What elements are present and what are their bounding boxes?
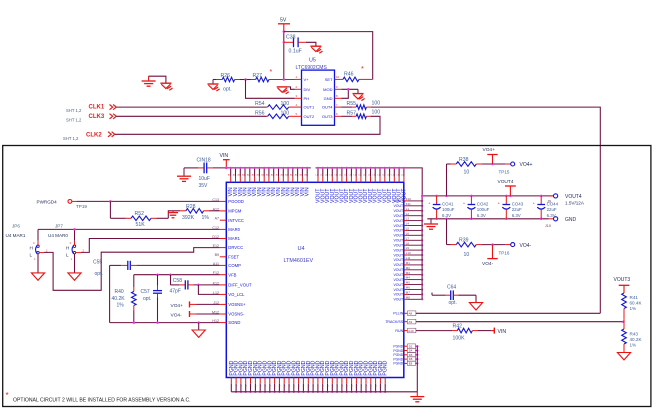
- capacitor CO44 22uF: [533, 196, 559, 219]
- svg-text:M4: M4: [406, 276, 410, 280]
- wire net TRACK/SS: [416, 321, 624, 323]
- svg-text:MPGM: MPGM: [228, 209, 242, 214]
- sheet border: [3, 146, 651, 407]
- ground G13 (open triangle JP6): [31, 273, 44, 280]
- svg-text:VOUT: VOUT: [393, 268, 404, 272]
- ground G15 (open triangle at SGND): [192, 323, 205, 338]
- resistor R39 10: [447, 219, 506, 258]
- svg-text:TP15: TP15: [499, 169, 510, 174]
- testpoint TP15: [499, 162, 533, 174]
- svg-text:VO4+: VO4+: [171, 303, 184, 309]
- svg-text:VOUT: VOUT: [393, 253, 404, 257]
- U5 pin 7 OUT4: [322, 103, 342, 110]
- node CLK1: [66, 105, 116, 114]
- svg-text:6.3V: 6.3V: [547, 213, 556, 218]
- svg-text:VOUT: VOUT: [393, 209, 404, 213]
- svg-text:PGND: PGND: [383, 360, 389, 375]
- wire net VOUT bus (top right bank): [316, 168, 423, 196]
- wire net DRVCC from JP6-2 (U route): [44, 248, 220, 291]
- svg-text:C38: C38: [286, 35, 296, 41]
- svg-text:VOUT: VOUT: [393, 298, 404, 302]
- resistor R27: [246, 69, 295, 82]
- capacitor C57 opt.: [141, 275, 163, 323]
- capacitor CO41 100uF: [428, 196, 455, 219]
- svg-text:VOUT: VOUT: [393, 239, 404, 243]
- wire MOD/GND tie: [342, 88, 359, 98]
- svg-text:60.4K: 60.4K: [630, 300, 643, 305]
- svg-text:10: 10: [464, 170, 470, 176]
- wire right PGND vertical: [416, 346, 418, 392]
- svg-text:M3: M3: [406, 271, 410, 275]
- svg-text:TP16: TP16: [499, 250, 510, 255]
- capacitor CO42 100uF: [463, 196, 490, 219]
- resistor R54 100: [255, 101, 295, 109]
- svg-text:VOUT: VOUT: [393, 273, 404, 277]
- svg-text:RUN: RUN: [395, 329, 403, 333]
- resistor R56 100: [255, 110, 295, 118]
- svg-text:L10: L10: [406, 251, 411, 255]
- U5 pin 6 OUT3: [322, 112, 342, 119]
- svg-text:35V: 35V: [199, 183, 209, 189]
- svg-text:VOUT: VOUT: [393, 244, 404, 248]
- svg-text:6.3V: 6.3V: [512, 213, 521, 218]
- svg-text:VOUT3: VOUT3: [614, 277, 631, 283]
- svg-text:OPTIONAL CIRCUIT 2 WILL BE INS: OPTIONAL CIRCUIT 2 WILL BE INSTALLED FOR…: [13, 397, 191, 403]
- svg-text:R55: R55: [347, 101, 357, 107]
- svg-text:L4: L4: [406, 222, 410, 226]
- svg-text:CLK3: CLK3: [89, 114, 105, 120]
- resistor R26 opt.: [213, 73, 246, 93]
- node V+ junctions: [244, 78, 285, 81]
- svg-text:10: 10: [336, 75, 340, 79]
- svg-text:100: 100: [372, 101, 381, 107]
- wire net PLLIN: [416, 312, 600, 314]
- svg-text:22uF: 22uF: [547, 207, 557, 212]
- U5 pin 1 V+: [295, 75, 310, 82]
- svg-text:A8: A8: [409, 312, 413, 316]
- svg-text:L1: L1: [406, 207, 410, 211]
- svg-text:6.3V: 6.3V: [477, 213, 486, 218]
- svg-text:LTC6902CMS: LTC6902CMS: [296, 65, 328, 71]
- svg-text:10: 10: [464, 252, 470, 258]
- power flag 5V: [278, 18, 290, 32]
- svg-text:TRACK/SS: TRACK/SS: [385, 320, 404, 324]
- resistor R41 60.4K 1%: [622, 293, 643, 320]
- svg-text:DIV: DIV: [304, 87, 311, 92]
- svg-text:*: *: [6, 391, 9, 400]
- svg-text:VOUT: VOUT: [393, 283, 404, 287]
- svg-text:VOUT: VOUT: [393, 214, 404, 218]
- svg-text:CO41: CO41: [442, 201, 454, 206]
- node VO4+ sense: [171, 301, 220, 308]
- node CLK2: [63, 132, 115, 141]
- svg-text:CO44: CO44: [547, 201, 559, 206]
- svg-text:L3: L3: [406, 217, 410, 221]
- svg-text:100: 100: [281, 101, 290, 107]
- U4 pin PLLIN: [393, 311, 416, 316]
- ground G9 (bar, at output caps): [424, 219, 438, 229]
- svg-text:VOUT: VOUT: [393, 199, 404, 203]
- svg-text:SET: SET: [325, 77, 333, 82]
- wire net CLK2 to R57: [115, 116, 380, 134]
- ground G3 (chevron, right of C38): [310, 46, 322, 53]
- svg-text:M7: M7: [406, 291, 410, 295]
- svg-text:VOUT4: VOUT4: [498, 179, 514, 185]
- svg-text:SHT 1,2: SHT 1,2: [66, 118, 82, 123]
- svg-text:C55: C55: [93, 260, 102, 266]
- svg-text:CO43: CO43: [512, 201, 524, 206]
- svg-text:OUT3: OUT3: [322, 114, 333, 119]
- svg-text:VOUT: VOUT: [393, 229, 404, 233]
- svg-text:VIN: VIN: [305, 187, 311, 196]
- svg-text:C57: C57: [141, 289, 150, 295]
- svg-text:M2: M2: [406, 266, 410, 270]
- U5 pin 3 PH: [295, 94, 310, 101]
- svg-text:1%: 1%: [630, 306, 637, 311]
- svg-text:100uF: 100uF: [477, 207, 490, 212]
- capacitor C58 47pF: [170, 275, 194, 295]
- ground G10 (open triangle at C64): [469, 303, 482, 310]
- resistor R38 10: [447, 157, 506, 196]
- U4 pin TRACK/SS: [385, 319, 416, 324]
- node CLK3: [66, 114, 116, 123]
- svg-text:DRVCC: DRVCC: [228, 245, 243, 250]
- svg-text:PGND: PGND: [393, 362, 403, 366]
- svg-text:A10: A10: [408, 329, 414, 333]
- svg-text:VOUT: VOUT: [393, 263, 404, 267]
- wire net VFB: [134, 273, 220, 276]
- wire net PGOOD: [77, 200, 220, 203]
- svg-text:1%: 1%: [117, 302, 125, 308]
- svg-text:R27: R27: [253, 73, 263, 79]
- U5 pin 8 GND: [324, 94, 342, 101]
- svg-text:100uF: 100uF: [442, 207, 455, 212]
- svg-text:VO_LCL: VO_LCL: [228, 292, 245, 297]
- svg-text:R42: R42: [453, 324, 463, 330]
- wire net PGND bottom bus: [231, 391, 417, 393]
- svg-text:VOUT: VOUT: [393, 234, 404, 238]
- resistor R46: [342, 66, 373, 82]
- ground G2 (chevron style, top-left): [160, 83, 172, 90]
- svg-text:100: 100: [281, 110, 290, 116]
- U5 pin 4 OUT1: [295, 103, 315, 110]
- svg-text:VO4-: VO4-: [520, 243, 532, 249]
- U4 bottom PGND pin stubs: [229, 360, 389, 393]
- svg-text:VOUT: VOUT: [393, 293, 404, 297]
- note text: [6, 391, 191, 403]
- wire net VOUT4 top rail: [421, 195, 554, 198]
- capacitor C55 opt.: [93, 260, 220, 278]
- svg-text:L6: L6: [406, 231, 410, 235]
- svg-text:INTVCC: INTVCC: [228, 218, 244, 223]
- svg-text:CIN18: CIN18: [197, 158, 211, 164]
- wire net MAR1 from JP7-2: [81, 239, 220, 253]
- svg-text:R26: R26: [221, 73, 231, 79]
- svg-text:VIN: VIN: [498, 329, 507, 335]
- svg-text:K10: K10: [406, 197, 412, 201]
- svg-text:1%: 1%: [630, 343, 637, 348]
- svg-text:R43: R43: [630, 331, 639, 336]
- svg-text:22uF: 22uF: [512, 207, 522, 212]
- node PWRGD4 / testpoint TP19: [37, 200, 88, 210]
- svg-text:U4: U4: [298, 246, 305, 252]
- svg-text:VOSNS+: VOSNS+: [228, 302, 246, 307]
- svg-text:PWRGD4: PWRGD4: [37, 200, 58, 205]
- svg-text:V+: V+: [304, 77, 310, 82]
- svg-text:51K: 51K: [136, 222, 146, 228]
- capacitor CO43 22uF: [498, 196, 524, 219]
- svg-text:CO42: CO42: [477, 201, 489, 206]
- svg-text:VIN: VIN: [220, 153, 229, 159]
- svg-text:R41: R41: [630, 295, 639, 300]
- svg-text:VOUT: VOUT: [393, 219, 404, 223]
- ground G12 (bar, small at R28): [168, 211, 178, 218]
- svg-text:CLK1: CLK1: [89, 105, 105, 111]
- svg-text:R52: R52: [135, 211, 145, 217]
- svg-text:47pF: 47pF: [170, 288, 181, 294]
- svg-text:MOD: MOD: [323, 87, 332, 92]
- svg-text:VO4+: VO4+: [483, 147, 496, 153]
- svg-text:opt.: opt.: [223, 87, 232, 93]
- svg-text:M8: M8: [406, 295, 410, 299]
- svg-text:CLK2: CLK2: [86, 132, 102, 138]
- power flag VO4+: [483, 147, 498, 165]
- svg-text:JP7: JP7: [55, 224, 63, 229]
- svg-text:*: *: [361, 66, 364, 73]
- svg-text:VFB: VFB: [228, 272, 236, 277]
- svg-text:0.1uF: 0.1uF: [289, 49, 302, 55]
- svg-text:TP19: TP19: [76, 204, 87, 209]
- jumper JP6 U4 MAR1: [6, 224, 49, 273]
- svg-text:COMP: COMP: [228, 263, 241, 268]
- U4 top VOUT pin stubs: [315, 167, 407, 203]
- svg-text:C58: C58: [173, 278, 182, 284]
- U5 pin 9 MOD: [323, 85, 341, 92]
- svg-text:VOUT: VOUT: [393, 288, 404, 292]
- wire net 5V to R46 loop: [284, 32, 373, 80]
- capacitor C64 opt.: [432, 284, 476, 306]
- svg-text:R40: R40: [115, 289, 124, 295]
- svg-text:JP6: JP6: [12, 224, 20, 229]
- power flag VOUT4: [498, 179, 516, 196]
- resistor R42 100K: [416, 324, 491, 342]
- wire net GND rail: [427, 218, 548, 221]
- svg-text:R57: R57: [347, 110, 357, 116]
- svg-text:J10: J10: [545, 224, 551, 228]
- wire net SGND rail: [110, 321, 220, 324]
- resistor R40 40.2K 1%: [112, 275, 137, 323]
- svg-text:M5: M5: [406, 281, 410, 285]
- svg-text:392K: 392K: [182, 215, 195, 221]
- svg-text:SGND: SGND: [228, 320, 240, 325]
- svg-text:VOUT4: VOUT4: [565, 194, 582, 200]
- svg-text:L11: L11: [406, 256, 411, 260]
- wire net VIN bus (top left bank): [213, 167, 311, 170]
- svg-text:PLLIN: PLLIN: [393, 312, 403, 316]
- svg-text:PGOOD: PGOOD: [228, 199, 244, 204]
- node R41/R43 junction: [622, 320, 625, 329]
- resistor R57 100: [342, 110, 381, 119]
- power flag VIN: [220, 153, 230, 168]
- svg-text:1%: 1%: [202, 215, 210, 221]
- svg-text:OUT4: OUT4: [322, 105, 333, 110]
- svg-text:R56: R56: [255, 110, 265, 116]
- svg-text:L5: L5: [406, 227, 410, 231]
- power flag VO4-: [482, 243, 498, 267]
- jumper JP7 U4 MAR0: [48, 224, 85, 273]
- svg-text:6.3V: 6.3V: [442, 213, 451, 218]
- svg-text:U5: U5: [309, 58, 316, 64]
- svg-text:R28: R28: [186, 204, 196, 210]
- resistor R43 40.2K 1%: [622, 329, 643, 353]
- svg-text:opt.: opt.: [95, 271, 103, 277]
- svg-text:GND: GND: [324, 96, 333, 101]
- ground G1 (bar style, top-left): [142, 76, 156, 86]
- svg-text:A7: A7: [215, 217, 219, 221]
- svg-text:SHT 1,2: SHT 1,2: [63, 136, 79, 141]
- svg-text:A9: A9: [409, 320, 413, 324]
- svg-text:VOUT: VOUT: [393, 278, 404, 282]
- svg-text:U4 MAR1: U4 MAR1: [6, 233, 26, 238]
- op IC U5 LTC6902CMS body: [296, 58, 335, 126]
- svg-text:U4 MAR0: U4 MAR0: [48, 233, 68, 238]
- wire net VO_LCL: [198, 285, 219, 295]
- capacitor C38 0.1uF: [284, 35, 316, 55]
- svg-text:L: L: [30, 253, 33, 258]
- svg-text:opt.: opt.: [449, 300, 457, 306]
- svg-text:VOUT: VOUT: [393, 204, 404, 208]
- svg-text:R46: R46: [344, 71, 354, 77]
- svg-text:10uF: 10uF: [199, 176, 210, 182]
- U4 pin RUN: [395, 328, 415, 333]
- svg-text:M1: M1: [406, 261, 410, 265]
- svg-text:K11: K11: [406, 202, 411, 206]
- svg-text:R38: R38: [459, 157, 469, 163]
- svg-text:L7: L7: [406, 236, 410, 240]
- ground G4 (chevron at U5 MOD/GND): [353, 94, 365, 101]
- wire net CLK3: [117, 115, 267, 117]
- svg-text:R39: R39: [459, 238, 469, 244]
- node VIN terminator at R42: [491, 328, 506, 335]
- testpoint TP16: [499, 243, 532, 256]
- svg-text:100K: 100K: [453, 336, 466, 342]
- U5 pin 10 SET: [325, 75, 342, 82]
- wire net MAR0 (H line): [38, 228, 220, 241]
- svg-text:FSET: FSET: [228, 254, 239, 259]
- svg-text:MAR0: MAR0: [228, 227, 240, 232]
- svg-text:MAR1: MAR1: [228, 236, 240, 241]
- svg-text:L: L: [66, 253, 69, 258]
- svg-text:1.5V/12A: 1.5V/12A: [565, 200, 585, 205]
- svg-text:L2: L2: [406, 212, 410, 216]
- wire ground link top-left: [149, 76, 166, 83]
- U4 top VIN pin stubs: [228, 167, 311, 197]
- svg-text:C64: C64: [447, 284, 456, 290]
- ground G14 (open triangle JP7): [68, 273, 81, 280]
- svg-text:H: H: [66, 245, 69, 250]
- power flag VOUT3: [614, 277, 631, 293]
- svg-text:L9: L9: [406, 246, 410, 250]
- svg-text:VOUT: VOUT: [393, 248, 404, 252]
- svg-text:OUT2: OUT2: [304, 114, 315, 119]
- svg-text:GND: GND: [565, 217, 577, 223]
- U4 left pins: [212, 198, 252, 325]
- svg-text:B9: B9: [215, 253, 219, 257]
- svg-text:VOUT: VOUT: [393, 224, 404, 228]
- wire COMP left drop: [109, 265, 111, 322]
- svg-text:VOUT: VOUT: [393, 258, 404, 262]
- svg-text:100: 100: [372, 110, 381, 116]
- svg-text:L8: L8: [406, 241, 410, 245]
- svg-text:R54: R54: [255, 101, 265, 107]
- svg-text:opt.: opt.: [143, 296, 151, 302]
- svg-text:VO4-: VO4-: [171, 312, 183, 318]
- resistor R28 392K 1%: [180, 204, 220, 221]
- svg-text:40.2K: 40.2K: [112, 296, 126, 302]
- U5 pin 2 DIV: [295, 85, 311, 92]
- svg-text:OUT1: OUT1: [304, 105, 315, 110]
- wire to U5 PH pin: [246, 80, 295, 99]
- svg-text:E8: E8: [409, 362, 413, 366]
- svg-text:40.2K: 40.2K: [630, 337, 643, 342]
- U4 right VOUT pins and bus: [393, 196, 423, 302]
- module U4 LTM4601EV body: [226, 182, 403, 377]
- ground G7 (bar, at CIN18): [177, 168, 191, 182]
- svg-text:*: *: [270, 69, 273, 76]
- ground G6 (chevron left of R26): [208, 80, 220, 92]
- svg-text:VOSNS-: VOSNS-: [228, 312, 245, 317]
- wire net OUT4 to PLLIN (long): [371, 107, 601, 313]
- svg-text:VO4-: VO4-: [482, 261, 494, 267]
- ground G5 (chevron at U5 DIV): [277, 87, 295, 94]
- svg-text:PH: PH: [304, 96, 310, 101]
- ground G8 (bar, bottom right of U4): [410, 392, 424, 402]
- terminal J10 GND: [545, 217, 577, 229]
- ground G11 (open triangle under R43): [617, 353, 630, 360]
- capacitor CIN18 10uF 35V: [184, 158, 213, 190]
- svg-text:5V: 5V: [280, 18, 287, 24]
- svg-text:DIFF_VOUT: DIFF_VOUT: [228, 283, 252, 288]
- resistor R52 51K: [110, 201, 180, 228]
- U5 pin 5 OUT2: [295, 112, 315, 119]
- U4 right PGND pins: [393, 344, 418, 366]
- node VO4- sense: [171, 311, 220, 318]
- wire net CLK1: [117, 106, 267, 108]
- svg-text:M6: M6: [406, 286, 410, 290]
- wire net DIFF_VOUT: [194, 284, 220, 287]
- svg-text:H: H: [30, 245, 33, 250]
- terminal J9 VOUT4: [547, 194, 585, 206]
- svg-text:VO4+: VO4+: [520, 162, 533, 168]
- svg-text:LTM4601EV: LTM4601EV: [284, 258, 314, 264]
- svg-text:SHT 1,2: SHT 1,2: [66, 108, 82, 113]
- wire net 5V vertical: [283, 30, 286, 79]
- resistor R55 100: [342, 101, 381, 110]
